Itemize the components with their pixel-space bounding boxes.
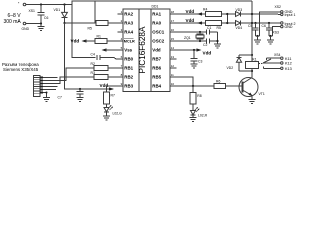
node relay top [251, 54, 253, 56]
svg-text:13: 13 [171, 55, 175, 59]
wire relay supply rail [251, 1, 253, 61]
svg-text:OSC1: OSC1 [152, 30, 165, 35]
capacitor C6 [38, 5, 49, 24]
capacitor C6b [262, 22, 273, 36]
node C6 top [40, 3, 42, 5]
svg-text:10: 10 [171, 82, 175, 86]
resistor R8 [190, 86, 202, 104]
ground under LED HL2 [189, 118, 196, 122]
junction rows 1-2 [226, 13, 228, 24]
svg-text:VD1: VD1 [54, 8, 61, 12]
node phone gnd junction [46, 92, 48, 94]
wire XS1 gnd row [33, 23, 41, 25]
wire relay top rail [239, 54, 252, 56]
node RB4/RB5/R8 junction [192, 85, 194, 87]
svg-text:C7: C7 [58, 96, 62, 100]
svg-text:12: 12 [171, 64, 175, 68]
svg-text:Siemens X35/X45: Siemens X35/X45 [3, 67, 39, 72]
resistor R6 [214, 80, 239, 89]
wire +V rail [33, 1, 252, 4]
diode VD3 [236, 8, 243, 16]
IC left pin names [124, 12, 135, 89]
svg-text:RB1: RB1 [124, 66, 133, 71]
capacitor C3 [191, 50, 203, 64]
phone connector XP1 [34, 76, 58, 97]
ground under VT1 [248, 100, 255, 104]
wire VD2 bottom [239, 70, 252, 72]
svg-text:C6: C6 [44, 16, 48, 20]
capacitor C1 [206, 26, 217, 35]
wire phone gnd [46, 93, 48, 98]
resistor R5 [88, 21, 124, 31]
ground under C7 [76, 97, 83, 101]
wire phone to R2 [46, 68, 95, 81]
IC right pin numbers [171, 10, 175, 86]
Vdd arrow right [100, 83, 115, 90]
wire RB5 down to RB4 row [177, 77, 194, 86]
svg-text:R5: R5 [88, 27, 92, 31]
resistor R7 [104, 92, 115, 104]
svg-text:R8: R8 [197, 94, 201, 98]
wire RB4 row to base [177, 85, 215, 87]
connector XS2 [275, 5, 296, 17]
svg-text:XS4: XS4 [274, 53, 281, 57]
oscillator wire OSC2 [177, 40, 207, 42]
svg-text:R1: R1 [97, 35, 101, 39]
svg-text:RB0: RB0 [124, 57, 133, 62]
ground under LED HL1 [103, 116, 110, 120]
wire RA1 row to XS2 input1 [177, 13, 281, 15]
connector XS4 [274, 53, 292, 71]
svg-text:C1: C1 [207, 26, 211, 30]
IC left pin stubs [118, 14, 124, 86]
svg-text:VD4: VD4 [236, 26, 243, 30]
svg-text:DD1: DD1 [152, 5, 159, 9]
capacitor C4 [91, 53, 124, 61]
svg-text:R3: R3 [91, 71, 95, 75]
wire RB3 to R7 [107, 86, 118, 92]
node relay bottom [251, 70, 253, 72]
svg-text:K11: K11 [285, 57, 291, 61]
svg-text:C3: C3 [198, 60, 202, 64]
capacitor C5 [248, 22, 259, 36]
diode VD4 [236, 21, 243, 30]
wire RA0 row to XS3 input2 [177, 22, 281, 24]
wire XS3 gnd [273, 27, 281, 36]
node C6 bottom [40, 22, 42, 24]
svg-text:RB5: RB5 [152, 75, 161, 80]
relay contact link [259, 63, 263, 65]
ground under C1 C2 [214, 44, 221, 48]
svg-text:17: 17 [171, 19, 175, 23]
svg-text:300 mA: 300 mA [4, 19, 22, 25]
svg-text:VT1: VT1 [259, 92, 265, 96]
wire caps to ground [217, 32, 219, 44]
svg-text:RB3: RB3 [124, 84, 133, 89]
svg-text:R5: R5 [217, 26, 221, 30]
svg-text:11: 11 [171, 73, 174, 77]
node B (Vdd net) [63, 22, 65, 24]
svg-text:Vdd: Vdd [71, 39, 80, 44]
svg-text:K12: K12 [285, 62, 292, 66]
transistor VT1 [239, 77, 265, 100]
connector XS1 pin 1 [18, 1, 35, 13]
connector XS3 [273, 22, 296, 35]
svg-text:OSC2: OSC2 [152, 39, 165, 44]
svg-text:Vdd: Vdd [186, 18, 195, 23]
svg-text:R6: R6 [216, 80, 220, 84]
svg-text:RA4: RA4 [124, 30, 133, 35]
wire node B down to Vdd feed line [65, 23, 114, 89]
svg-text:Input 1: Input 1 [285, 13, 296, 17]
svg-text:R7: R7 [111, 94, 115, 98]
svg-text:C5: C5 [248, 24, 252, 28]
svg-text:VD2: VD2 [227, 66, 234, 70]
svg-text:XS2: XS2 [275, 5, 282, 9]
node gnd right [269, 35, 273, 40]
ground under C3 [190, 64, 197, 68]
wire Vdd pin 14 [177, 48, 212, 55]
svg-text:Vss: Vss [124, 48, 132, 53]
svg-text:L02,G: L02,G [113, 112, 123, 116]
svg-text:RB7: RB7 [152, 57, 161, 62]
svg-text:K1: K1 [253, 57, 257, 61]
svg-text:RB2: RB2 [124, 75, 133, 80]
wire branch to R5 [94, 1, 96, 23]
svg-text:RA0: RA0 [152, 21, 161, 26]
svg-text:MCLR: MCLR [124, 40, 135, 44]
svg-text:PIC16F628A: PIC16F628A [138, 26, 147, 73]
svg-text:R4: R4 [203, 8, 207, 12]
ground under phone connector [43, 98, 50, 102]
IC right pin stubs [170, 14, 177, 86]
svg-text:RA3: RA3 [124, 21, 133, 26]
Vdd arrow row2 [186, 18, 203, 25]
resistor R4 [203, 8, 222, 17]
node C7 [79, 88, 81, 90]
LED HL2 [191, 104, 208, 118]
svg-text:14: 14 [171, 46, 175, 50]
svg-text:Vdd: Vdd [203, 51, 212, 56]
svg-text:GND: GND [22, 27, 30, 31]
svg-text:L02,R: L02,R [198, 114, 208, 118]
label phone connector [2, 62, 39, 72]
svg-text:Vdd: Vdd [152, 48, 161, 53]
IC left pin numbers [121, 10, 123, 86]
IC DD1 PIC16F628A [123, 5, 170, 92]
diode VD2 [227, 55, 242, 71]
svg-text:15: 15 [171, 37, 175, 41]
capacitor C7 [58, 89, 84, 100]
node rail row1 [251, 13, 253, 15]
relay contact [263, 58, 281, 68]
svg-text:R2: R2 [91, 62, 95, 66]
relay coil K1 [246, 55, 259, 77]
svg-text:RA1: RA1 [152, 12, 161, 17]
svg-text:XS1: XS1 [29, 9, 36, 13]
ground under C5 [254, 40, 261, 44]
node VD1 anode [63, 3, 65, 5]
svg-text:RA2: RA2 [124, 12, 133, 17]
svg-text:ZQ1: ZQ1 [184, 36, 191, 40]
oscillator wire OSC1 [177, 31, 207, 33]
svg-text:RB4: RB4 [152, 84, 161, 89]
svg-text:XS3: XS3 [273, 31, 280, 35]
svg-text:C2: C2 [203, 43, 207, 47]
ground under C6 [37, 24, 44, 31]
svg-text:16: 16 [171, 28, 175, 32]
diode VD1 [54, 5, 68, 24]
wire phone to R3 [46, 77, 95, 84]
node rail row2 [251, 22, 253, 24]
Vdd arrow row1 [186, 9, 203, 16]
resistor R3 [91, 71, 124, 80]
wire node B to C4 branch [65, 22, 97, 24]
LED HL1 [104, 104, 122, 116]
Vss gnd arrow [102, 48, 124, 51]
capacitor C2 [203, 39, 218, 47]
svg-text:K13: K13 [285, 67, 292, 71]
svg-text:*: * [18, 1, 20, 5]
svg-text:C6: C6 [262, 24, 266, 28]
resistor R1 (MCLR pull-up) [71, 35, 124, 44]
svg-text:18: 18 [171, 10, 175, 14]
ground under C6b [267, 40, 274, 44]
svg-text:Vdd: Vdd [186, 9, 195, 14]
svg-text:VD3: VD3 [236, 8, 243, 12]
resistor R5b [206, 21, 222, 31]
IC right pin names [152, 12, 165, 89]
resistor R2 [91, 62, 124, 71]
wire XS2 gnd [260, 12, 281, 36]
node gnd left [256, 35, 260, 40]
crystal ZQ1 [184, 32, 204, 41]
connector XS1 pin 2 (GND) [18, 20, 33, 31]
svg-text:GND: GND [285, 25, 293, 29]
label power rating [4, 13, 22, 25]
svg-text:C4: C4 [91, 53, 95, 57]
svg-text:RB6: RB6 [152, 66, 161, 71]
MCLR overline [124, 37, 134, 39]
